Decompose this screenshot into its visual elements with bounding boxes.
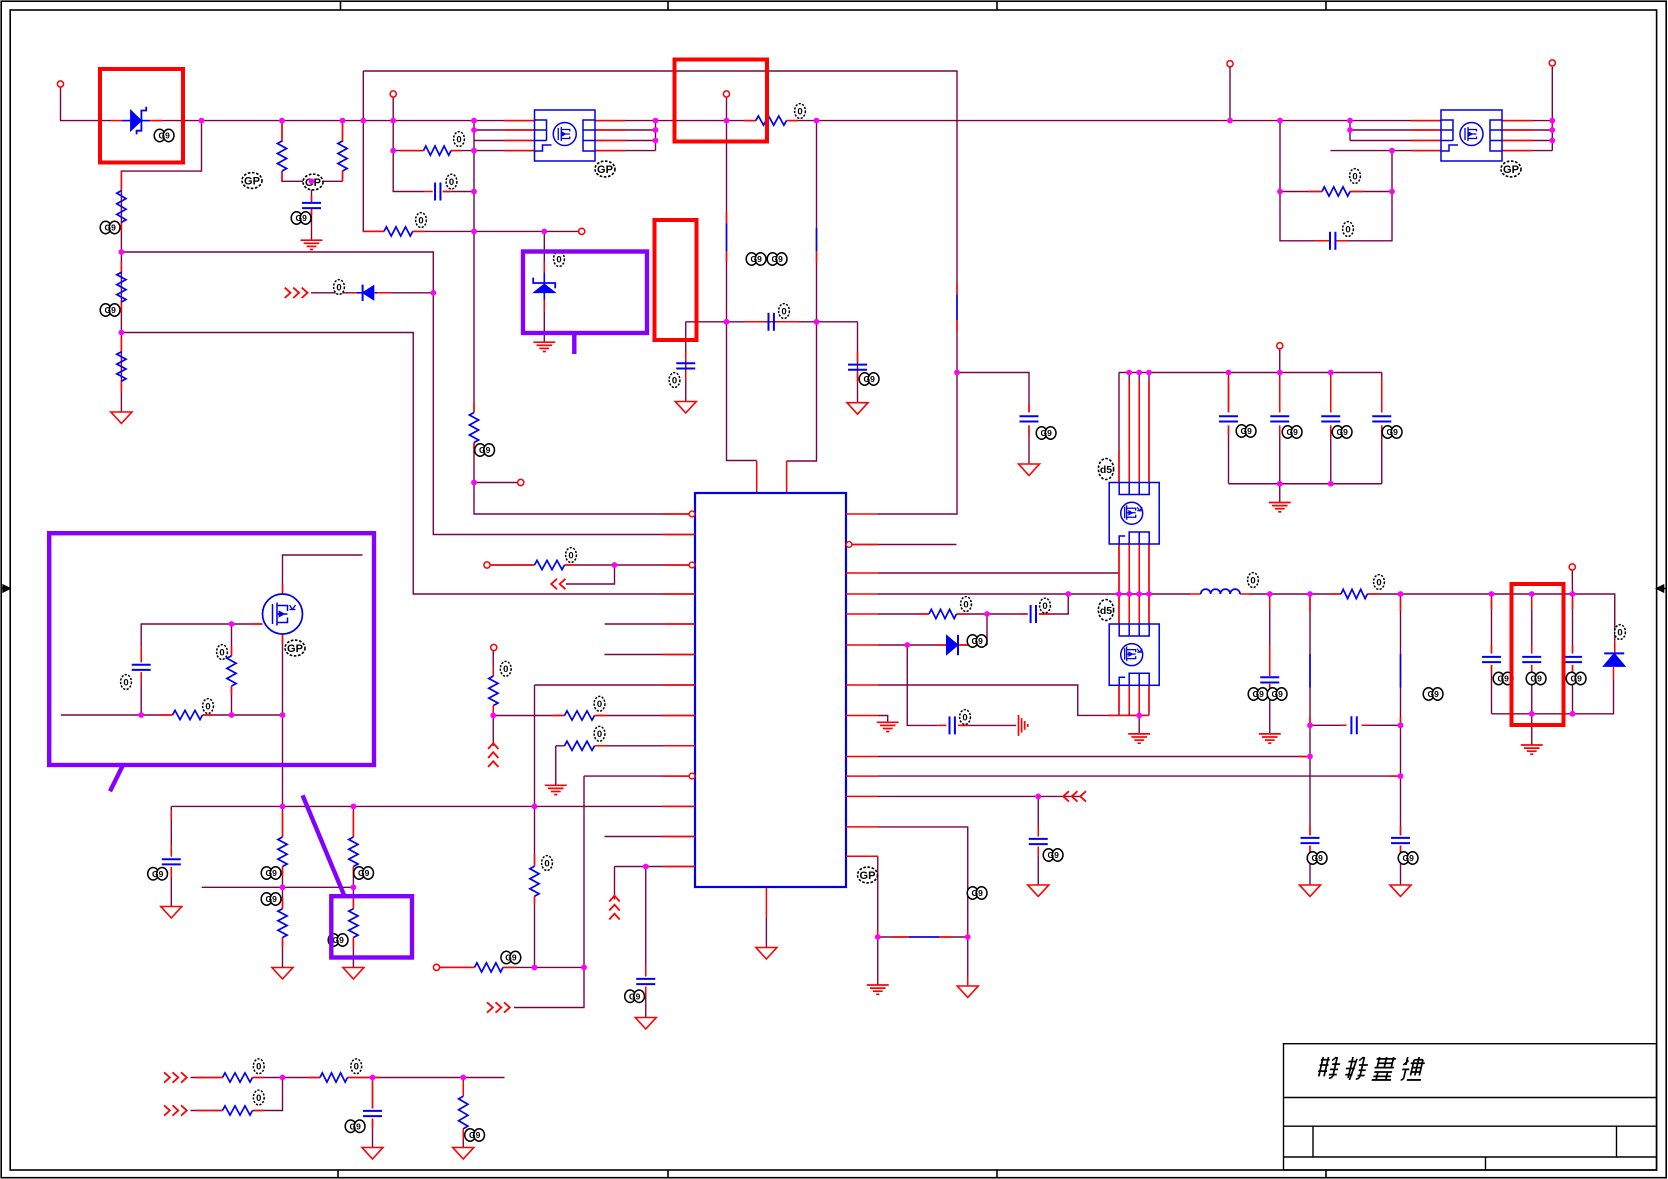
capacitor C19 output	[1522, 656, 1541, 658]
wire IC bottom pin to ground triangle	[765, 918, 767, 948]
junction at (1552.3,140.5)	[1549, 138, 1555, 144]
wire line y=796 to left chevrons	[878, 795, 1080, 797]
label C20 designator	[1566, 672, 1577, 684]
junction at (1230,120.6)	[1227, 118, 1233, 124]
junction at (393.2,120.6)	[390, 118, 396, 124]
label C6 designator	[669, 373, 680, 388]
red highlight box 1 input diode	[100, 69, 183, 163]
transistor Q5 package high-side	[1109, 483, 1159, 545]
wire VIN bus right of Q4 package	[1502, 120, 1552, 122]
label C26 designator	[1382, 426, 1393, 438]
IC pin bubble y=565	[689, 562, 695, 568]
wire branch x=372 to C14	[372, 1078, 374, 1109]
wire TP7 to R21	[437, 966, 475, 968]
wire R28 left lead	[1280, 191, 1322, 193]
label R19 designator	[542, 856, 553, 871]
wire R21 to x=584 vertical	[503, 966, 584, 968]
label R28 designator	[1350, 169, 1361, 184]
junction at (726.5,321.8)	[724, 319, 730, 325]
svg-text:G9: G9	[505, 953, 517, 963]
wire branch x=686 through C6 to ground	[685, 322, 687, 402]
ground GND11	[1019, 464, 1040, 476]
earth ground AGND7	[1259, 733, 1281, 735]
capacitor C13	[636, 978, 655, 980]
wire R28 right lead	[1350, 191, 1392, 193]
label L1 designator	[1248, 573, 1259, 588]
wire R24 to line end right of dot463	[348, 1077, 505, 1079]
label R15 designator	[328, 934, 339, 946]
ground GND10	[756, 948, 777, 960]
wire x=1280 gate RC vertical and C21 left	[1280, 121, 1326, 241]
junction at (1491.5,594)	[1489, 591, 1495, 597]
svg-text:G9: G9	[1312, 853, 1324, 863]
svg-text:G9: G9	[1387, 427, 1399, 437]
wire vertical x=474 lower part to IC pin bubble y=514	[474, 443, 690, 515]
resistor R22	[223, 1073, 253, 1082]
purple highlight box Q2 area	[49, 533, 374, 765]
junction at (655.5,140.5)	[653, 138, 659, 144]
junction at (1280,120.6)	[1277, 118, 1283, 124]
svg-text:G9: G9	[358, 868, 370, 878]
label C30a designator	[1248, 688, 1259, 700]
wire C13 to ground triangle	[645, 987, 647, 1018]
wire IC top pin B vertical x=816 to VIN bus	[787, 121, 817, 461]
label R23 designator	[253, 1090, 264, 1105]
svg-text:G9: G9	[1531, 674, 1543, 684]
junction at (534.5,967.4)	[532, 965, 538, 971]
junction at (534.5,806.4)	[532, 804, 538, 810]
wire SW node IC to inductor L1	[878, 593, 1190, 595]
svg-text:0: 0	[1617, 627, 1622, 638]
resistor R1	[117, 191, 126, 223]
border mid-right arrow marker	[1657, 585, 1666, 592]
resistor R20	[565, 741, 595, 750]
label R25 designator	[465, 1129, 476, 1141]
svg-text:0: 0	[219, 647, 224, 658]
test point TP7	[433, 964, 439, 970]
resistor R12	[278, 837, 287, 867]
wire Q1 drain pin out 4	[595, 150, 656, 152]
label R6 designator	[454, 132, 465, 147]
junction at (1400.5,594)	[1398, 591, 1404, 597]
resistor R21	[475, 963, 504, 972]
junction at (1400.5,725.3)	[1398, 722, 1404, 728]
junction at (353.4,806.4)	[351, 804, 357, 810]
label R16 designator	[566, 548, 577, 563]
capacitor C16	[949, 716, 951, 734]
wire rail y=484	[1229, 483, 1382, 485]
output chevron connector net6	[560, 579, 566, 589]
wire output bus to diode D5 cathode	[1367, 594, 1614, 640]
wire IC pin y=645 to diode D4	[878, 644, 947, 646]
wire R16 to IC pin bubble y=565	[565, 564, 690, 566]
wire R14 top lead	[352, 806, 354, 837]
wire R22 to R24 through junction	[253, 1077, 321, 1079]
capacitor C6	[676, 362, 695, 364]
resistor R11	[173, 710, 203, 719]
svg-text:G9: G9	[972, 888, 984, 898]
label R1 designator	[100, 221, 111, 233]
wire chevron row2 to R23	[191, 1110, 223, 1112]
resistor R10 gate Q2	[227, 656, 236, 686]
junction at (121.4,252)	[119, 249, 125, 255]
junction at (393.2,150.6)	[390, 148, 396, 154]
ground GND8	[675, 402, 696, 414]
wire D3 anode to x=433 vertical	[375, 292, 434, 294]
label R12 designator	[261, 867, 272, 879]
wire Q4 pin3	[1350, 140, 1441, 142]
wire feedback line y=252 to IC pin y=534	[121, 252, 695, 535]
svg-text:G9: G9	[1048, 850, 1060, 860]
label C5 value	[779, 304, 790, 319]
wire Q1 drain pin out 3	[595, 140, 656, 142]
svg-text:G9: G9	[296, 213, 308, 223]
label C15 designator	[1040, 598, 1051, 613]
wire C28 right lead	[1362, 724, 1401, 726]
junction at (1392,150.6)	[1389, 148, 1395, 154]
junction at (282.5,715)	[280, 712, 286, 718]
wire top loop net from box edge to IC pin 14	[363, 71, 957, 514]
svg-text:G9: G9	[1253, 689, 1265, 699]
wire TP3 vertical to IC top pin A	[727, 97, 757, 461]
wire Q1 drain pin out 2	[595, 129, 656, 131]
wire C27 to ground triangle	[1309, 846, 1311, 886]
svg-text:0: 0	[672, 375, 677, 386]
label GP circle R4b	[303, 174, 323, 190]
wire Q1 drain pins common vertical	[655, 121, 657, 151]
test point TP4	[579, 228, 585, 234]
wire R27 to C15	[957, 613, 1028, 615]
wire R12 to R13 through line887	[282, 867, 284, 909]
label GP circle Q1	[595, 161, 615, 177]
wire C20 bottom lead	[1572, 665, 1574, 714]
wire Q6 source pin2 down	[1128, 685, 1130, 715]
svg-text:G9: G9	[751, 254, 763, 264]
svg-text:0: 0	[963, 599, 968, 610]
junction at (1139.2,372.5)	[1136, 370, 1142, 376]
input chevron connector net2	[164, 1072, 170, 1082]
svg-text:G9: G9	[864, 374, 876, 384]
resistor R15	[349, 909, 358, 938]
svg-text:d5: d5	[1100, 605, 1112, 617]
label C21 designator	[1343, 222, 1354, 237]
wire PVIN bus y=372	[1119, 372, 1382, 374]
label C16 designator	[960, 710, 971, 725]
svg-text:0: 0	[354, 1062, 359, 1073]
capacitor C27	[1301, 837, 1320, 839]
svg-text:0: 0	[1042, 601, 1047, 612]
wire R20 left lead corner	[556, 745, 565, 747]
label C25 designator	[1332, 426, 1343, 438]
svg-text:G9: G9	[105, 305, 117, 315]
svg-text:G9: G9	[1498, 674, 1510, 684]
svg-text:0: 0	[568, 550, 573, 561]
junction at (463.25,1077.5)	[460, 1075, 466, 1081]
wire IC pin y=866 line	[615, 866, 696, 868]
resistor R26 output	[1341, 589, 1367, 598]
label C10 designator	[148, 868, 159, 880]
input chevron connector net4	[487, 1002, 493, 1012]
svg-text:GP: GP	[244, 175, 260, 187]
ground GND13	[957, 986, 978, 998]
IC pin bubble y=544	[846, 542, 852, 548]
wire C18 top lead to output bus	[1491, 594, 1493, 653]
junction at (1119,594)	[1116, 591, 1122, 597]
border mid-left arrow marker	[1, 585, 10, 592]
wire C16 to right-earth ground	[959, 724, 1016, 726]
transistor Q1 package	[535, 110, 596, 161]
wire Q5 drain pin1 vertical	[1118, 373, 1120, 483]
wire R18 bottom past dot to chevron stub	[492, 706, 494, 746]
resistor R27 snubber	[929, 609, 957, 618]
wire Q5 drain pin2 vertical	[1128, 373, 1130, 483]
capacitor C24 bank	[1270, 415, 1289, 417]
wire IC pin y=826 to x=967 vertical ground	[878, 827, 968, 986]
junction at (141.2,715)	[138, 712, 144, 718]
label R21 designator	[501, 951, 512, 963]
wire x=1310 output branch vertical	[1309, 594, 1311, 725]
junction at (1068.25,594)	[1065, 591, 1071, 597]
schottky diode D1 input	[131, 110, 142, 131]
junction at (816.5,120.6)	[814, 118, 820, 124]
svg-text:G9: G9	[629, 991, 641, 1001]
capacitor C30 output	[1260, 676, 1279, 678]
wire IC pin bubble y=544 stub line	[852, 544, 957, 546]
wire R25 to ground triangle	[462, 1129, 464, 1148]
capacitor C20 output	[1563, 656, 1582, 658]
wire R23 up to row1 junction	[253, 1078, 283, 1111]
up chevron connector net8	[609, 896, 619, 902]
svg-text:G9: G9	[152, 869, 164, 879]
label R18 designator	[500, 661, 511, 676]
wire zener D2 branch vertical	[543, 231, 545, 342]
wire C20 top lead	[1572, 594, 1574, 653]
label D1 designator	[154, 129, 165, 141]
wire gate to R10 top	[231, 624, 233, 656]
wire L1 to series resistor R26	[1250, 593, 1342, 595]
wire Q4 drain common vertical to TP9	[1551, 67, 1553, 151]
wire C19 bottom lead	[1531, 665, 1533, 714]
label C24 designator	[1282, 426, 1293, 438]
test point TP8	[1227, 61, 1233, 67]
capacitor C9 gate Q2	[132, 664, 151, 666]
wire chevron row1 to R22	[191, 1077, 223, 1079]
capacitor C3	[434, 183, 436, 201]
resistor R25	[459, 1096, 468, 1129]
wire R4a top lead	[281, 121, 283, 142]
label C29 designator	[1398, 852, 1409, 864]
wire gate vertical tap to TP11 stub	[474, 482, 518, 484]
red highlight box 3	[655, 220, 697, 340]
wire TP8 drop to VIN bus	[1229, 67, 1231, 121]
capacitor C14	[363, 1110, 382, 1112]
wire R12 top lead	[282, 806, 284, 837]
title block	[1284, 1044, 1657, 1170]
blue wire overlay segments	[122, 121, 1401, 937]
ground GND1	[111, 412, 132, 424]
label C23 designator	[1236, 425, 1247, 437]
input chevron connector net1	[285, 288, 291, 298]
svg-text:0: 0	[962, 712, 967, 723]
diode D3	[363, 286, 374, 300]
wire Q6 drain pin2	[1128, 594, 1130, 624]
junction at (907.25,645)	[904, 642, 910, 648]
label D2 designator	[554, 252, 565, 267]
wire IC pin y=715 to earth ground jog	[878, 716, 888, 723]
resistor R14	[349, 837, 358, 867]
svg-text:G9: G9	[1403, 853, 1415, 863]
wire branch x=463 to R25	[462, 1078, 464, 1097]
label D5 designator	[1615, 625, 1626, 640]
wire Q5 source pin2 to SW bus	[1128, 544, 1130, 594]
svg-text:G9: G9	[333, 935, 345, 945]
resistor R28 gate Q4	[1322, 187, 1350, 196]
wire VIN bus R5 to Q4 package	[787, 120, 1442, 122]
junction at (1269.75,594)	[1267, 591, 1273, 597]
resistor R8 on gate vertical	[469, 413, 478, 443]
label GP circle Q4	[1501, 161, 1521, 177]
svg-text:GP: GP	[860, 870, 876, 882]
wire C23 bottom lead to rail y=484	[1228, 425, 1230, 483]
label R24 designator	[351, 1059, 362, 1074]
label R11 designator	[203, 699, 214, 714]
label C9 designator	[121, 675, 132, 690]
wire IC NC stub pin y=836	[605, 836, 696, 838]
junction at (1149,594)	[1146, 591, 1152, 597]
svg-text:G9: G9	[1241, 426, 1253, 436]
junction at (342.5,120.6)	[340, 118, 346, 124]
wire x=646 down to C13	[645, 867, 647, 977]
label R13 designator	[261, 893, 272, 905]
label R designator x474	[475, 444, 486, 456]
ground GND9	[847, 403, 868, 415]
wire R4a/R4b bottom bar	[282, 171, 343, 181]
wire R6 to Q1 gate pin	[451, 150, 535, 152]
junction at (282.5,887.3)	[280, 884, 286, 890]
wire IC pin y=856 corner down to earth ground	[877, 856, 879, 985]
wire Q6 source bar y=715	[1119, 714, 1149, 716]
junction dot over GP label	[309, 178, 315, 184]
svg-text:GP: GP	[597, 164, 613, 176]
wire source bar to earth ground	[1138, 715, 1140, 734]
wire R7 to gate vertical and zener tap to TP4	[413, 230, 582, 232]
wire VCC mid bus y=322	[686, 321, 858, 323]
junction at (614.5,565)	[612, 562, 618, 568]
svg-text:0: 0	[256, 1062, 261, 1073]
wire output TP drop	[1571, 570, 1573, 594]
ground GND6	[453, 1148, 474, 1160]
svg-text:0: 0	[1376, 577, 1381, 588]
earth ground AGND9	[1269, 502, 1291, 504]
wire Q6 source pin3 down	[1138, 685, 1140, 715]
svg-text:G9: G9	[972, 636, 984, 646]
test point TP2	[390, 91, 396, 97]
junction at (1350,130)	[1347, 127, 1353, 133]
junction at (584,967.4)	[581, 965, 587, 971]
junction at (987,614)	[984, 611, 990, 617]
svg-text:G9: G9	[350, 1121, 362, 1131]
junction at (1350,120.6)	[1347, 118, 1353, 124]
wire snubber R27 from IC pin y=614	[878, 613, 929, 615]
test point TP1	[57, 81, 63, 87]
purple box Q2 tail	[110, 766, 123, 791]
purple highlight box zener	[523, 252, 647, 334]
wire line y=887 joining dividers	[202, 886, 354, 888]
svg-text:G9: G9	[479, 445, 491, 455]
wire Q4 drain pin out3	[1502, 140, 1552, 142]
wire right-chevron connector up to junction	[514, 967, 584, 1007]
capacitor C7	[848, 364, 867, 366]
wire dot715 to R17	[493, 715, 564, 717]
wire D4 anode branch to C16	[907, 645, 937, 725]
junction at (1279.75,372.5)	[1277, 370, 1283, 376]
wire x=1400 output branch vertical	[1400, 594, 1402, 725]
label C18 designator	[1493, 672, 1504, 684]
wire R15 bottom to ground	[352, 938, 354, 968]
wire branch x=1038 to C17	[1037, 796, 1039, 836]
ground GND3	[272, 968, 293, 980]
wire TP6 down to R18	[492, 651, 494, 676]
svg-text:GP: GP	[1503, 164, 1519, 176]
transistor Q4 package	[1441, 110, 1502, 161]
junction at (1310,725.3)	[1307, 722, 1313, 728]
wire C26 top lead	[1381, 373, 1383, 413]
label R22 designator	[253, 1059, 264, 1074]
wire R4b top lead	[342, 121, 344, 142]
wire C28 left lead y=725	[1310, 724, 1347, 726]
wire Q6 drain pin4	[1148, 594, 1150, 624]
junction at (1280,191.5)	[1277, 189, 1283, 195]
ground GND7	[635, 1018, 656, 1030]
junction at (493.25,715.5)	[490, 713, 496, 719]
junction at (544.3,231.4)	[541, 229, 547, 235]
IC U1 main controller	[695, 493, 846, 887]
junction at (967.75,937)	[965, 934, 971, 940]
wire C9 bottom to bus715	[140, 672, 142, 715]
wire long feedback line1 y=756	[878, 756, 1310, 758]
label C3 designator	[446, 174, 457, 189]
junction at (282.5,806.4)	[280, 804, 286, 810]
capacitor C15 snubber	[1030, 605, 1032, 623]
svg-text:0: 0	[449, 177, 454, 188]
label R17 designator	[594, 696, 605, 711]
label D4 designator	[967, 635, 978, 647]
label C5a designator	[746, 253, 757, 265]
purple box zener tail	[572, 333, 576, 354]
wire Q5 drain pin3 vertical	[1138, 373, 1140, 483]
wire C30 top lead from output bus	[1269, 594, 1271, 676]
wire IC NC stub pin y=624	[605, 623, 696, 625]
label net designator x967	[967, 887, 978, 899]
label C7 designator	[859, 373, 870, 385]
junction at (474,150.6)	[471, 148, 477, 154]
label C22 designator	[1036, 427, 1047, 439]
red pin-stub wire segments	[111, 121, 1615, 1139]
ground GND5	[362, 1148, 383, 1160]
test point TP9	[1549, 60, 1555, 66]
wire VIN bus Q1 package to series resistor R5	[595, 120, 756, 122]
node stub right pin y=514	[877, 513, 879, 515]
junction at (363.3,120.6)	[360, 118, 366, 124]
wire vertical x=584 down to chevron line junction	[583, 776, 585, 967]
wire Q5 source pin1 to SW bus	[1118, 544, 1120, 594]
wire Q5 source pin3 to SW bus	[1138, 544, 1140, 594]
title block company name 緯創資通 (drawn as vector strokes)	[1317, 1057, 1342, 1078]
label C17 designator	[1043, 849, 1054, 861]
label C5b designator	[767, 253, 778, 265]
wire R19 bottom to TP line junction	[534, 896, 536, 967]
IC pin bubble y=514	[689, 511, 695, 517]
